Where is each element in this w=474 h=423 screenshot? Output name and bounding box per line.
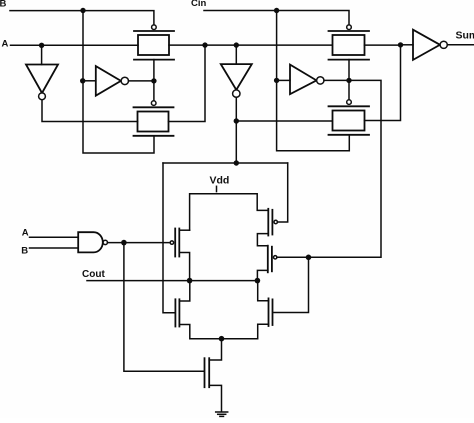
svg-text:Cout: Cout <box>82 269 105 280</box>
wire A' to TG2 input <box>42 100 138 122</box>
wire U4 input from Cin <box>277 79 290 81</box>
svg-text:Cin: Cin <box>191 0 207 9</box>
wire B' rail down to TG2 bubble <box>153 81 155 101</box>
wire U4 output to gate rail <box>324 79 349 81</box>
transistor Q5 nmos bottom right <box>222 281 273 339</box>
wire XNOR line to TG4 input <box>236 120 332 122</box>
op-amp inverter U1 (A') <box>26 65 58 94</box>
op-amp inverter U3 (XNOR) <box>221 64 252 97</box>
transmission gate TG3 top (S1 path) <box>329 31 370 60</box>
wire XNOR down to carry block <box>235 121 237 163</box>
wire TG4 output up to Sum node <box>365 45 401 121</box>
node XNOR carry junction <box>234 160 239 165</box>
node Cin' gate rail <box>346 78 351 83</box>
node S1 tap to inverter U3 <box>234 42 239 47</box>
wire U3 output down <box>235 97 237 121</box>
wire TG1 output to XOR node <box>169 44 205 46</box>
node XOR output S1 <box>202 42 207 47</box>
wire Sum node to inverter U5 <box>401 44 414 46</box>
op-amp inverter U2 (B') <box>96 66 129 96</box>
svg-text:A: A <box>2 39 9 50</box>
transistor Q4 nmos bottom left <box>175 281 221 339</box>
svg-text:Sum: Sum <box>456 30 474 42</box>
transmission gate TG4 bottom (XNOR path) <box>329 106 370 135</box>
transmission gate TG2 bottom (A' path) <box>134 107 174 136</box>
wire nand output down to Q6 gate <box>124 243 204 372</box>
op-amp inverter U4 (Cin') <box>290 65 324 95</box>
transistor Q3 pmos right <box>257 246 308 281</box>
wire B vertical to NMOS gate of TG2 <box>83 11 154 154</box>
wire Cout line <box>87 280 257 282</box>
wire Cin' branch to carry block <box>309 80 382 257</box>
ground <box>216 412 228 416</box>
wire nand input A <box>30 236 79 238</box>
wire S1 line to stage 2 <box>205 44 332 46</box>
wire TG2 output up to XOR node <box>169 45 206 121</box>
node B junction <box>80 8 85 13</box>
node Cin junction <box>274 8 279 13</box>
wire U2 input from B <box>83 80 96 82</box>
wire TG1 bottom gate to B' node <box>153 60 155 81</box>
wire nand input B <box>30 247 79 249</box>
wire Cin' down to Q5 gate <box>274 257 309 312</box>
wire A to inverter U1 <box>41 45 43 64</box>
svg-text:A: A <box>22 227 29 238</box>
wire Cin vertical to NMOS gate of TG4 <box>277 11 350 151</box>
wire B line <box>10 11 154 25</box>
node B' gate rail <box>151 78 156 83</box>
wire A line <box>11 44 139 46</box>
wire nand output <box>108 242 171 244</box>
wire right end down to Q2 gate <box>277 163 287 222</box>
svg-text:B: B <box>21 246 28 257</box>
wire TG3 bottom gate to Cin' node <box>348 60 350 81</box>
wire Vdd rail <box>190 194 269 230</box>
wire U2 output to gate rail <box>129 80 155 82</box>
node Sum <box>398 42 403 47</box>
op-amp inverter U5 (Sum driver) <box>413 30 447 60</box>
transmission gate TG1 top (A path) <box>134 31 174 60</box>
node foot junction <box>219 336 225 342</box>
svg-text:B: B <box>0 0 7 10</box>
node Cout left junction <box>187 278 193 284</box>
node A junction <box>39 43 44 48</box>
node Cout right junction <box>255 278 261 284</box>
wire Cin' rail down to TG4 bubble <box>348 80 350 99</box>
wire S1 down to U3 <box>235 45 237 64</box>
wire Sum output line <box>447 44 474 46</box>
wire Cin line <box>204 11 349 25</box>
transistor Q6 nmos foot <box>205 339 222 412</box>
node XNOR <box>234 118 239 123</box>
nand gate U6 <box>78 232 107 252</box>
wire TG3 output to Sum node <box>365 44 401 46</box>
wire Vdd stub <box>216 186 218 191</box>
transistor Q1 pmos left <box>170 229 189 281</box>
transistor Q2 pmos top right <box>257 209 277 246</box>
svg-text:Vdd: Vdd <box>210 175 230 187</box>
node Cin' carry junction <box>306 254 312 260</box>
node nand output <box>121 240 127 246</box>
wire XNOR carry line <box>163 162 288 164</box>
node U2 input <box>80 78 85 83</box>
node U4 input <box>274 78 279 83</box>
wire left rail down to Q4 gate <box>163 163 175 313</box>
